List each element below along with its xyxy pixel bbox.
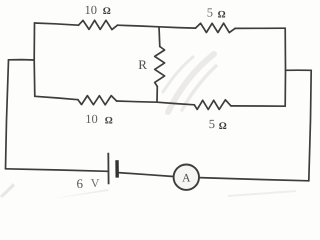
svg-text:R: R: [138, 57, 147, 72]
wire left stub (outer rail to inner rail): [9, 59, 35, 61]
wire R to node D: [156, 87, 158, 103]
wire right outer rail: [309, 70, 311, 181]
ammeter A1 body: [174, 165, 199, 190]
svg-text:Ω: Ω: [103, 6, 111, 17]
label 5 Ω (top resistor R2): [207, 6, 226, 21]
svg-text:10: 10: [85, 112, 98, 126]
label 5 Ω (bottom resistor R4): [209, 117, 227, 132]
wire inner left rail: [33, 23, 36, 96]
faint watermark arc: [163, 54, 216, 112]
resistor R2 5Ω (top right): [196, 23, 236, 32]
svg-text:A: A: [182, 172, 191, 184]
faint smudge bottom-left: [0, 183, 15, 198]
svg-text:Ω: Ω: [219, 121, 227, 132]
wire node D to R4: [157, 102, 194, 105]
wire top-middle (R1 to node B): [118, 25, 160, 27]
svg-text:5: 5: [209, 117, 215, 131]
faint smudge bottom-right: [228, 190, 296, 197]
wire bottom left (to battery): [6, 169, 108, 172]
battery B1 short plate (-): [115, 160, 119, 177]
wire left outer rail: [6, 60, 9, 169]
faint smudge bottom-center: [56, 189, 109, 198]
svg-text:6: 6: [77, 176, 84, 191]
svg-text:Ω: Ω: [218, 10, 226, 21]
wire ammeter to bottom-right corner: [199, 178, 308, 181]
label 6 V (battery): [77, 176, 100, 191]
svg-text:5: 5: [207, 6, 213, 20]
label 10 Ω (bottom resistor R3): [85, 112, 113, 127]
wire battery to ammeter: [118, 173, 173, 177]
wire bottom bridge left (rail to R3): [35, 96, 78, 99]
resistor R3 10Ω (bottom left): [78, 96, 117, 105]
resistor R1 10Ω (top left): [79, 20, 118, 29]
wire bottom bridge right (R4 to inner rail): [231, 105, 285, 107]
battery B1 long plate (+): [107, 153, 109, 185]
svg-text:V: V: [91, 176, 100, 190]
wire bottom bridge middle (R3 to node D): [117, 101, 157, 102]
resistor R4 5Ω (bottom right): [194, 100, 231, 110]
wire right stub (outer rail to inner rail): [286, 69, 312, 71]
wire inner right rail: [284, 28, 286, 106]
wire top-right (R2 to right rail corner): [235, 27, 285, 29]
wire top-left horizontal (left rail corner to R1): [35, 23, 79, 25]
svg-text:Ω: Ω: [105, 115, 113, 126]
svg-text:10: 10: [85, 3, 98, 17]
resistor R (middle vertical): [155, 47, 165, 87]
label 10 Ω (top resistor R1): [85, 3, 111, 17]
wire node B to galvanometer resistor R: [158, 27, 161, 47]
wire top node B to R2: [159, 27, 196, 28]
